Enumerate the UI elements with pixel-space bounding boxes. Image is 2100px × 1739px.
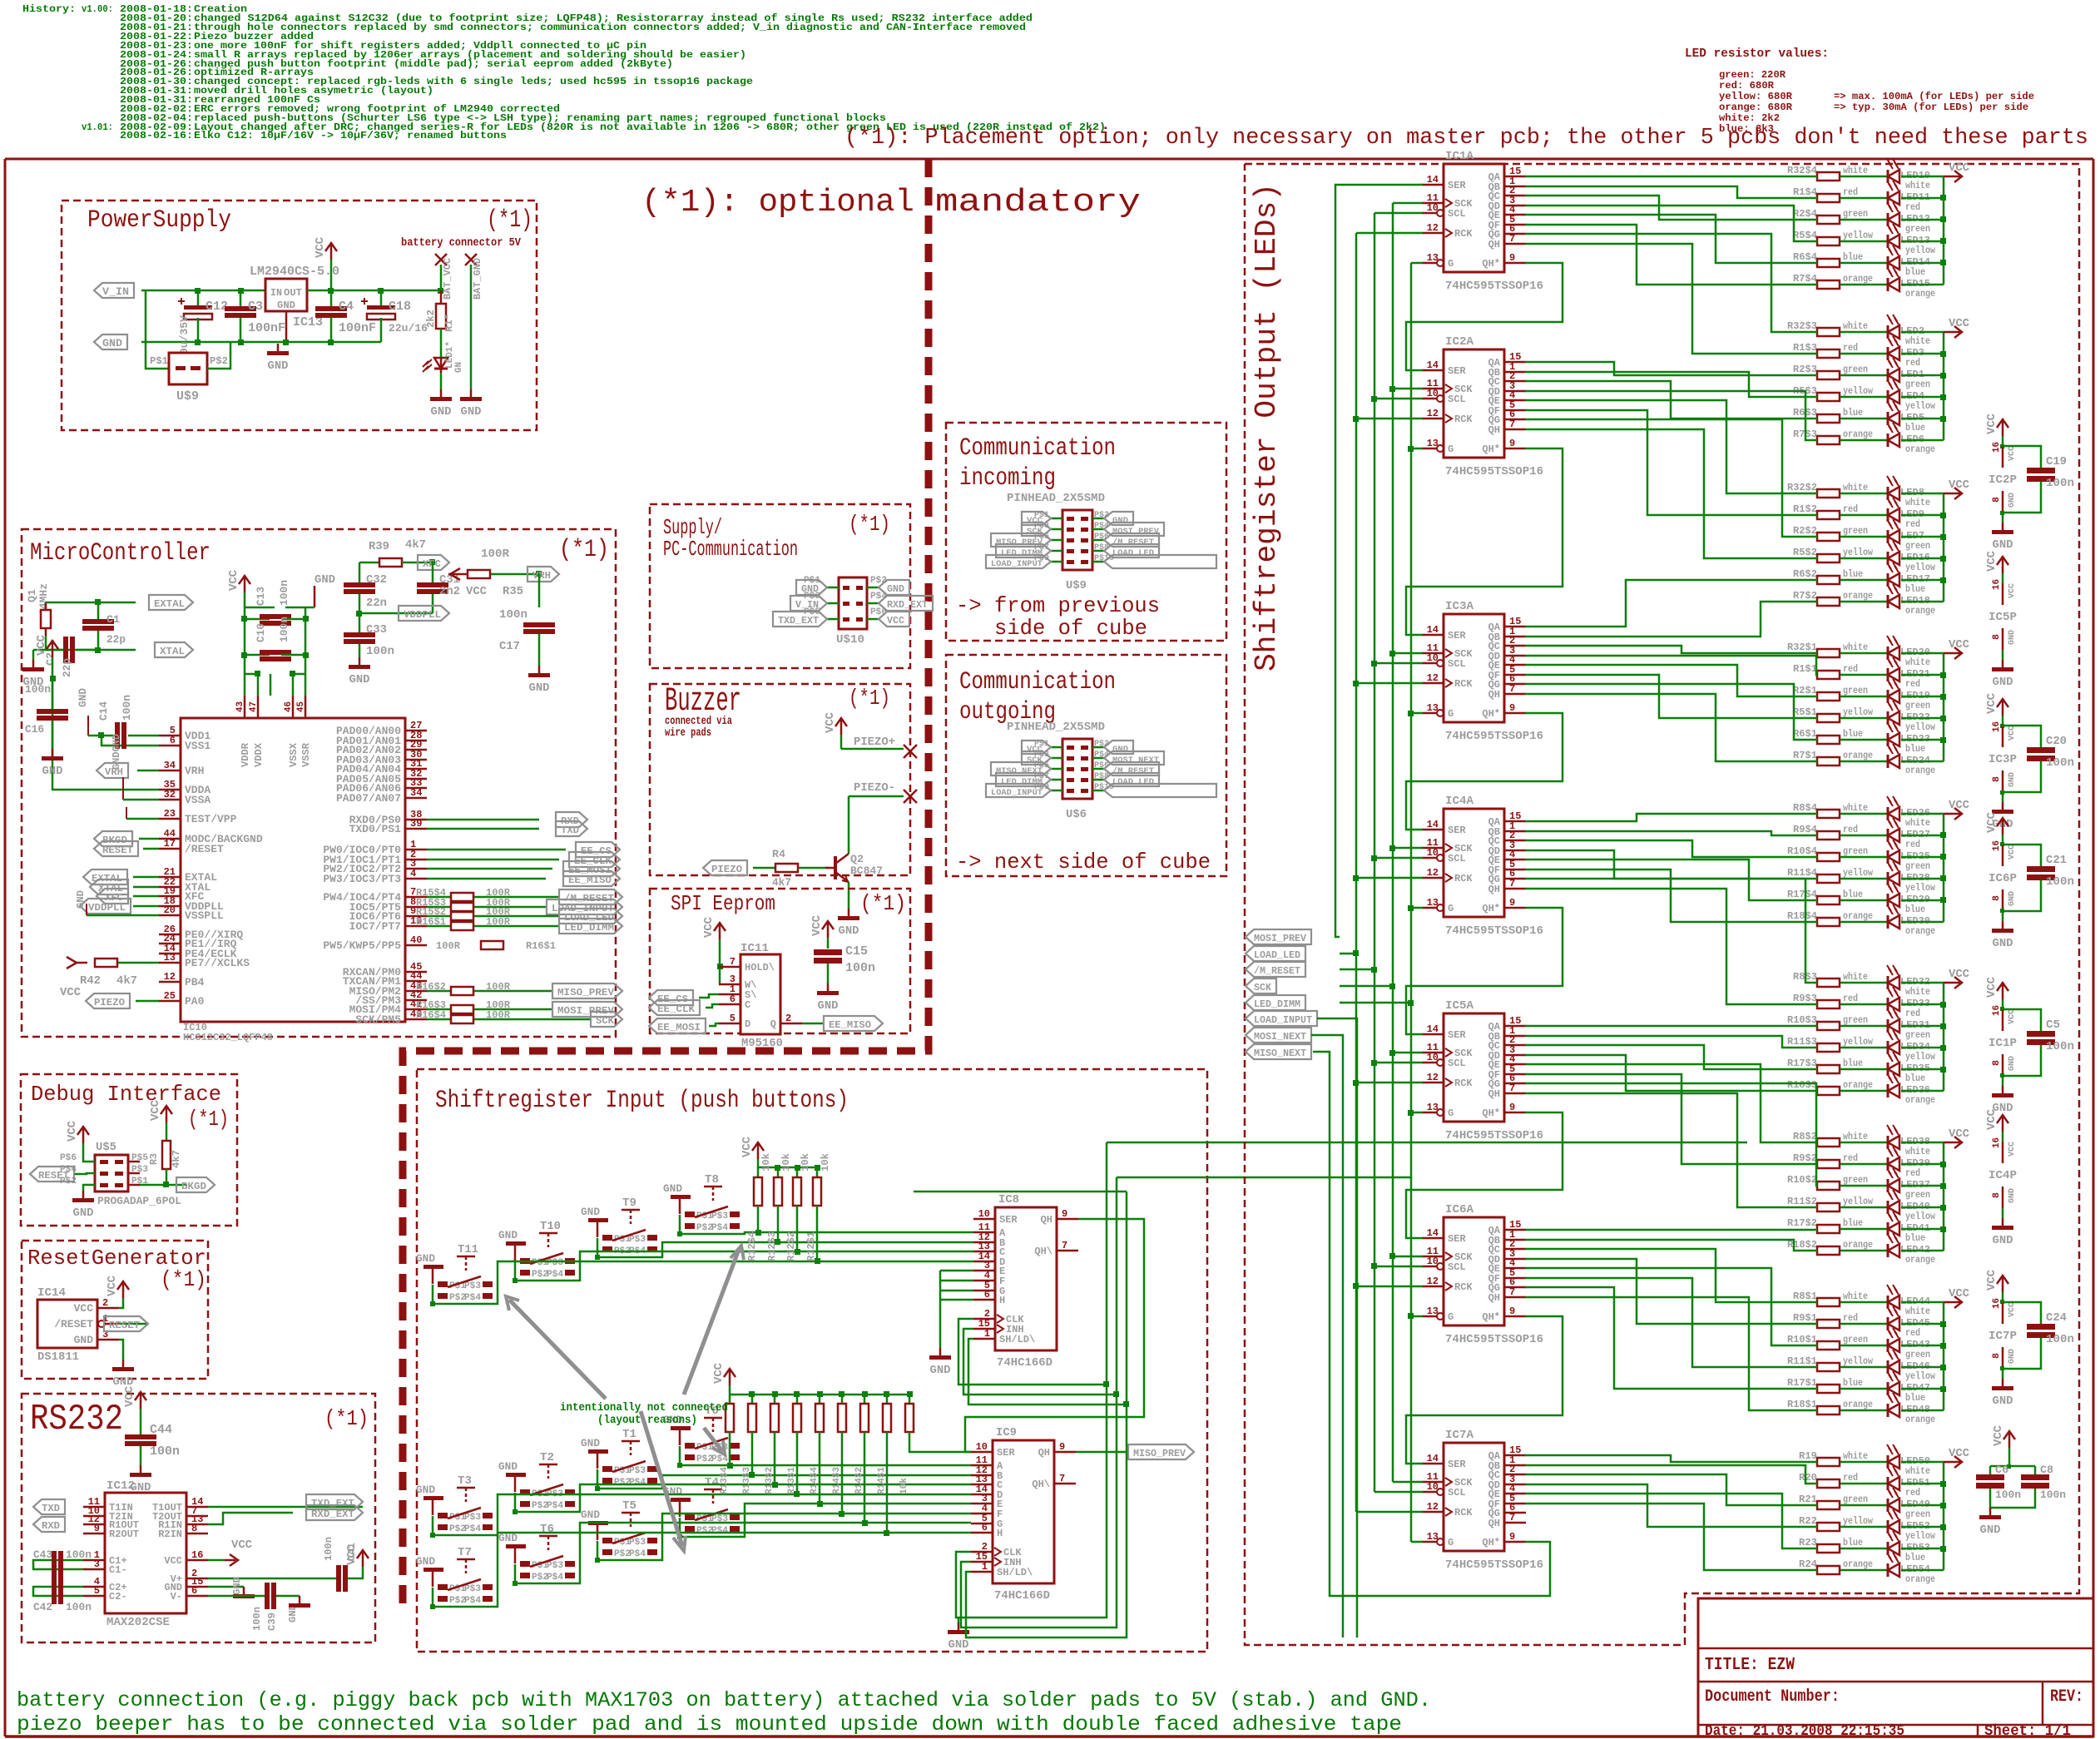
resistor bank R13/R14 10k [712,1362,971,1536]
ic IC9 74HC166D [971,1426,1076,1603]
led LED51 red [1887,1466,1944,1499]
svg-text:white: 2k2: white: 2k2 [1719,112,1780,124]
svg-text:T7: T7 [458,1546,472,1559]
node LOAD_INPUT flag [547,899,622,914]
svg-text:VCC: VCC [227,569,240,591]
connector U$6 PINHEAD_2X5SMD [1007,721,1114,821]
svg-text:LOAD_LED: LOAD_LED [1112,777,1154,787]
svg-text:SER: SER [1448,825,1466,836]
RS232 block [22,1394,375,1642]
svg-text:C12: C12 [206,300,228,314]
svg-text:TXD_EXT: TXD_EXT [311,1498,354,1509]
svg-text:VCC: VCC [887,615,904,627]
svg-text:(*1): (*1) [161,1267,206,1292]
led LED3 red [1887,336,1944,369]
svg-text:IC5A: IC5A [1445,999,1474,1013]
ground IC14 [112,1340,134,1389]
resistor R2$2 [1793,525,1888,541]
svg-text:16: 16 [191,1549,203,1561]
node nc U$6 [1104,784,1216,797]
svg-text:TXD_EXT: TXD_EXT [778,615,819,627]
svg-text:T2: T2 [540,1451,554,1464]
led LED27 red [1887,818,1944,850]
svg-text:VCC: VCC [1949,1447,1970,1460]
svg-text:RESET: RESET [38,1170,69,1182]
wire led group vcc bus [1940,332,1946,440]
svg-text:5: 5 [94,1585,100,1597]
svg-text:IC5P: IC5P [1989,611,2017,624]
capacitor C39 + grounds [208,1583,310,1631]
svg-text:red: red [1843,993,1858,1004]
next side note [956,850,1211,874]
led LED24 orange [1887,744,1944,776]
power VCC led group [1944,1127,1970,1148]
svg-text:PIEZO-: PIEZO- [854,781,895,795]
resistor R11$3 [1787,1036,1888,1052]
resistor R39 4k7 [359,538,449,579]
svg-text:74HC595TSSOP16: 74HC595TSSOP16 [1445,924,1543,938]
led LED50 white [1887,1444,1944,1477]
decoupling C13/C10 [227,569,305,674]
svg-text:R1$2: R1$2 [1793,503,1817,515]
svg-text:yellow: yellow [1905,721,1936,733]
svg-text:SER: SER [1448,180,1466,191]
resistor R32$2 [1787,482,1888,498]
svg-text:red: red [1905,1008,1920,1019]
svg-text:C15: C15 [845,944,868,959]
svg-text:10: 10 [1427,1481,1439,1493]
svg-text:IC9: IC9 [996,1426,1017,1439]
svg-text:orange: orange [1905,1094,1935,1106]
svg-text:74HC166D: 74HC166D [994,1589,1050,1603]
resistor R1$2 [1793,503,1888,519]
svg-text:R17$1: R17$1 [1787,1377,1817,1389]
svg-text:(*1): (*1) [324,1406,369,1431]
svg-text:P$4: P$4 [629,1478,646,1488]
svg-text:RS232: RS232 [30,1399,123,1440]
svg-text:R2$3: R2$3 [1793,364,1817,375]
svg-text:white: white [1843,642,1868,653]
svg-text:white: white [1905,180,1930,191]
svg-text:34: 34 [164,760,176,771]
node EE_CS flag [427,842,620,857]
svg-text:VCC: VCC [164,1555,182,1567]
svg-text:VSSPLL: VSSPLL [185,909,224,922]
svg-text:GN: GN [454,362,464,373]
power VCC led group [1944,317,1970,338]
svg-text:green: 220R: green: 220R [1719,69,1786,81]
svg-text:R8$1: R8$1 [1793,1291,1817,1302]
svg-text:SH/LD\: SH/LD\ [997,1567,1033,1578]
svg-text:17: 17 [164,838,176,850]
svg-text:T10: T10 [540,1220,561,1233]
svg-text:9: 9 [1059,1441,1065,1453]
svg-text:R13$4: R13$4 [720,1467,730,1494]
svg-text:GND: GND [102,337,122,349]
ic IC4A 74HC595TSSOP16 [1422,795,1543,938]
ic IC11 M95160 [719,942,802,1050]
node SCK flag out [1246,978,1276,993]
node nc U$9 [1104,555,1216,568]
node /M_RESET flag out [1246,962,1305,977]
capacitor C21 100n [2003,845,2074,911]
led LED23 blue [1887,722,1944,755]
connector U$9 [146,342,230,404]
led LED4 yellow [1887,379,1944,412]
svg-text:U$9: U$9 [176,389,199,404]
power pins IC2P [1985,413,2017,552]
PowerSupply block [62,201,537,430]
svg-text:T3: T3 [458,1474,472,1488]
svg-text:red: red [1843,1312,1858,1324]
svg-text:12: 12 [1427,1072,1439,1083]
led LED48 orange [1887,1393,1944,1425]
capacitor C10 [241,617,309,661]
svg-text:7: 7 [1509,878,1515,889]
svg-text:20: 20 [164,904,176,916]
svg-text:C24: C24 [2046,1311,2067,1325]
node LED_DIMM U$6 [996,773,1051,787]
svg-text:100R: 100R [436,940,461,952]
wire QH* chain [1313,263,1563,1596]
svg-text:orange: orange [1905,1414,1935,1425]
svg-text:P$2: P$2 [614,1478,631,1488]
svg-text:orange: orange [1843,1079,1873,1091]
svg-text:100n: 100n [2040,1489,2066,1501]
svg-text:RCK: RCK [1454,414,1473,425]
node VCC U$10 [879,612,909,627]
svg-text:VCC: VCC [2008,845,2017,860]
node SCK flag [591,1012,622,1027]
svg-text:white: white [1905,335,1930,347]
svg-text:VRH: VRH [532,570,551,582]
node EE_CLK spi [649,1000,719,1015]
svg-text:VRH: VRH [185,765,204,777]
resistor R10$3 [1787,1014,1888,1030]
led LED45 red [1887,1306,1944,1339]
svg-text:GND: GND [431,405,452,419]
svg-text:74HC595TSSOP16: 74HC595TSSOP16 [1445,280,1543,293]
svg-text:R12$4: R12$4 [746,1231,758,1261]
node LOAD_INPUT flag out [1246,1011,1317,1026]
svg-text:8: 8 [1992,776,2002,782]
wire led group vcc bus [1940,176,1946,285]
svg-text:/RESET: /RESET [54,1318,93,1330]
svg-text:BKGD: BKGD [181,1181,206,1192]
Debug Interface block [21,1074,237,1226]
node PIEZO+ [841,736,917,758]
svg-text:GND: GND [818,999,839,1013]
svg-text:RCK: RCK [1454,1507,1473,1519]
svg-text:13: 13 [1427,897,1439,909]
svg-text:5: 5 [730,1013,735,1024]
svg-text:yellow: yellow [1843,706,1874,718]
Shiftregister Input title [435,1087,849,1115]
ic IC5A 74HC595TSSOP16 [1422,999,1543,1142]
svg-text:IN: IN [270,287,282,299]
svg-text:H: H [999,1295,1005,1306]
resistor R5$1 [1793,706,1888,722]
svg-text:C21: C21 [2046,854,2067,867]
svg-text:GND: GND [315,573,335,587]
svg-text:IC3P: IC3P [1989,753,2017,766]
svg-text:GND: GND [1112,516,1128,526]
led LED52 yellow [1887,1509,1944,1542]
svg-text:QH: QH [1488,239,1500,250]
svg-text:R5$1: R5$1 [1793,706,1817,718]
svg-text:R9$1: R9$1 [1793,1312,1817,1324]
led LED42 orange [1887,1233,1944,1266]
svg-text:VCC: VCC [1949,1127,1970,1141]
svg-text:LED resistor values:: LED resistor values: [1685,47,1829,61]
intentionally-not-connected note [560,1401,728,1427]
svg-text:9: 9 [1509,438,1515,449]
svg-text:34: 34 [410,787,422,799]
svg-text:VCC: VCC [1949,799,1970,812]
ic IC12 MAX202CSE [83,1479,208,1629]
wire V_IN rail [141,290,381,342]
svg-text:green: green [1905,1509,1930,1520]
power pins IC3P [1985,692,2017,831]
svg-text:/M_RESET: /M_RESET [1254,965,1300,977]
SPI Eeprom block [650,889,910,1033]
node BKGD flag [94,831,159,846]
svg-text:10: 10 [1427,652,1439,664]
MicroController title [30,536,609,567]
svg-text:GND: GND [581,1437,600,1449]
svg-text:blue: 3k3: blue: 3k3 [1719,123,1774,135]
ground T9 [581,1206,608,1237]
svg-text:100n: 100n [2046,477,2074,490]
resistor R22 [1799,1515,1888,1531]
svg-text:R32$3: R32$3 [1787,320,1817,332]
svg-text:8: 8 [1992,1060,2002,1066]
svg-text:3: 3 [94,1558,100,1570]
ground U$5 [72,1185,95,1220]
svg-text:red: red [1843,824,1858,835]
crystal Q1 14MHz [26,583,136,650]
wire bus LED_DIMM [1340,263,1423,1542]
node RXD_EXT U$10 [879,596,933,611]
svg-text:orange: orange [1843,750,1873,761]
svg-text:GND: GND [498,1460,518,1473]
svg-text:IC1A: IC1A [1445,150,1474,163]
svg-text:C33: C33 [366,623,387,637]
svg-text:SCL: SCL [1448,1058,1466,1069]
svg-text:IC8: IC8 [998,1193,1019,1206]
svg-text:R16$1: R16$1 [416,916,446,928]
svg-text:9: 9 [1509,252,1515,264]
svg-text:SCL: SCL [1448,853,1466,865]
gnd vssa [111,734,159,800]
Shiftregister Output block [1245,164,2079,1645]
gray arrow 4 [704,1428,725,1454]
wire bus MOSI_PREV to IC1A SER [1335,185,1423,937]
node SCK U$9 [1022,523,1051,537]
placement option note [844,126,2088,151]
node EE_MOSI flag [427,861,620,876]
connector U$5 PROGADAP_6POL [60,1141,181,1207]
connector U$10 [804,576,887,647]
svg-text:blue: blue [1843,1537,1863,1548]
capacitor C24 100n [2003,1302,2074,1369]
led LED21 red [1887,657,1944,690]
svg-text:SCL: SCL [1448,394,1466,405]
svg-text:G: G [1448,1107,1454,1119]
svg-text:T1: T1 [622,1428,636,1441]
ground T11 [416,1252,443,1284]
svg-text:GND: GND [277,300,295,311]
resistor R6$3 [1793,407,1888,423]
Communication outgoing block [946,655,1226,876]
resistor R35 100R [448,547,559,598]
svg-text:EE_MISO: EE_MISO [829,1019,871,1031]
svg-text:SCK: SCK [1027,756,1043,765]
svg-text:G: G [1448,1311,1454,1323]
svg-text:PIEZO: PIEZO [711,864,742,875]
svg-text:yellow: yellow [1843,230,1874,241]
ground Q2 [838,882,859,938]
svg-text:QH: QH [1041,1214,1052,1226]
svg-text:100n: 100n [2046,1040,2074,1053]
capacitor C19 100n [2003,446,2074,513]
node MISO_NEXT U$6 [991,762,1051,776]
svg-text:/M_RESET: /M_RESET [1112,766,1154,776]
svg-text:R32$4: R32$4 [1787,165,1817,176]
svg-text:100n: 100n [1995,1489,2021,1501]
svg-text:blue: blue [1905,1232,1925,1244]
svg-text:VCC: VCC [1985,976,1998,998]
svg-text:orange: orange [1905,1573,1935,1585]
svg-text:yellow: yellow [1843,1515,1874,1527]
node BKGD flag debug [140,1177,215,1192]
resistor R11$4 [1787,867,1888,883]
ground T7 [416,1555,443,1587]
svg-text:U$9: U$9 [1066,579,1087,592]
svg-text:U$5: U$5 [96,1141,116,1154]
svg-text:7: 7 [1509,419,1515,430]
svg-text:white: white [1843,971,1868,983]
resistor R2$4 [1793,208,1888,224]
ground T0 [663,1414,691,1445]
svg-text:12: 12 [1427,672,1439,684]
resistor R5$4 [1793,230,1888,245]
svg-text:QH*: QH* [1482,258,1500,270]
svg-text:Q2: Q2 [850,853,864,865]
svg-text:R14$2: R14$2 [854,1467,864,1494]
svg-text:R2$2: R2$2 [1793,525,1817,537]
node PIEZO flag buzzer [703,860,775,875]
ground T2 [498,1460,526,1492]
svg-text:R11$2: R11$2 [1787,1196,1817,1207]
resistor R9$2 [1793,1152,1888,1168]
svg-text:GND: GND [2008,891,2017,906]
node RXD_EXT flag [208,1505,363,1524]
svg-text:mandatory: mandatory [935,185,1141,220]
svg-text:MISO_NEXT: MISO_NEXT [1254,1048,1306,1059]
svg-text:2n2: 2n2 [439,585,460,598]
svg-text:QH: QH [1038,1447,1050,1459]
svg-text:PE7//XCLKS: PE7//XCLKS [185,957,250,969]
svg-text:R39: R39 [369,540,389,553]
svg-text:10k: 10k [899,1478,909,1494]
svg-text:14: 14 [1427,819,1439,830]
vcc IC14 [106,1275,129,1308]
svg-text:QH: QH [1488,1088,1500,1100]
svg-text:12: 12 [1427,1276,1439,1287]
svg-text:VCC: VCC [2008,1009,2017,1024]
push button T1 [595,1428,657,1491]
svg-text:QH\: QH\ [1032,1479,1050,1490]
svg-text:6: 6 [191,1585,197,1597]
led LED38 white [1887,1125,1944,1157]
svg-text:white: white [1843,482,1868,493]
svg-text:T4: T4 [705,1476,719,1489]
led LED41 blue [1887,1211,1944,1244]
resistor R11$1 [1787,1355,1888,1371]
svg-text:10: 10 [1427,847,1439,859]
wire led group vcc bus [1940,1302,1946,1410]
ic IC3A 74HC595TSSOP16 [1422,600,1543,743]
svg-text:Elko C12: 10µF/16V -> 10µF/36V: Elko C12: 10µF/16V -> 10µF/36V; renamed … [194,130,507,141]
svg-text:R10$1: R10$1 [1787,1334,1817,1345]
svg-text:VCC: VCC [74,1302,94,1315]
svg-text:LOAD_INPUT: LOAD_INPUT [1254,1014,1312,1026]
svg-text:QH: QH [1488,1518,1500,1529]
resistor R7$2 [1793,590,1888,606]
led LED9 red [1887,498,1944,530]
svg-text:MicroController: MicroController [30,539,210,567]
led LED43 green [1887,1328,1944,1360]
resistor R18$1 [1787,1399,1888,1414]
svg-text:Document Number:: Document Number: [1705,1687,1840,1707]
svg-text:green: green [1843,1014,1868,1026]
svg-text:R2$4: R2$4 [1793,208,1817,220]
resistor R18$2 [1787,1239,1888,1255]
capacitor C3 [225,288,285,345]
svg-text:PowerSupply: PowerSupply [87,206,231,235]
resistor R5$2 [1793,547,1888,562]
svg-text:(*1): Placement option; only n: (*1): Placement option; only necessary o… [844,126,2088,151]
svg-text:QH*: QH* [1482,708,1500,720]
push button T11 [430,1243,493,1306]
led LED25 green [1887,840,1944,872]
resistor R9$1 [1793,1312,1888,1328]
svg-text:GND: GND [2008,1188,2017,1203]
svg-text:74HC595TSSOP16: 74HC595TSSOP16 [1445,465,1543,478]
svg-text:white: white [1905,497,1930,508]
node PIEZO flag [86,993,159,1008]
capacitors C6 C8 [1976,1424,2066,1537]
svg-text:9: 9 [94,1523,100,1534]
resistor R17$4 [1787,889,1888,904]
svg-text:R35: R35 [503,585,523,598]
ic IC2A 74HC595TSSOP16 [1422,335,1543,478]
resistor R8$1 [1793,1291,1888,1306]
led LED22 yellow [1887,701,1944,733]
svg-text:white: white [1843,1291,1868,1302]
svg-text:EXTAL: EXTAL [154,598,185,610]
svg-text:VCC: VCC [2008,583,2017,598]
svg-text:C5: C5 [2046,1018,2060,1032]
led LED39 red [1887,1147,1944,1179]
svg-text:46: 46 [284,701,294,712]
svg-text:VCC: VCC [1985,692,1998,714]
svg-text:R1$1: R1$1 [1793,663,1817,675]
push button T10 [513,1220,575,1283]
svg-text:R2IN: R2IN [158,1528,182,1540]
resistor R24 [1799,1558,1888,1574]
